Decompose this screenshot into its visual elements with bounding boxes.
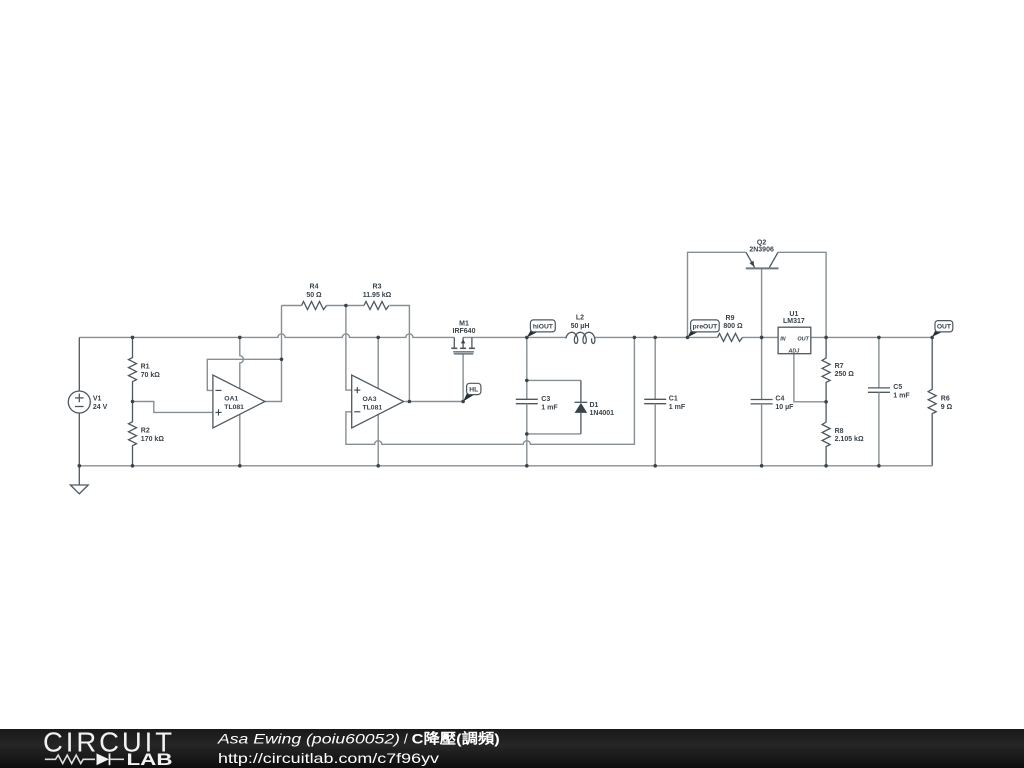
wire bottom rail (ground return) [79,465,932,467]
net flag hiOUT [527,329,539,338]
svg-text:OUT: OUT [937,324,952,331]
resistor R6 9 Ω [928,337,936,465]
wire OA1 V- supply pin [239,415,241,466]
svg-text:C3: C3 [541,396,550,403]
wire R1-R2 divider tap to OA1 noninverting input [133,402,213,413]
voltage source V1 24 V [78,337,80,391]
svg-text:LAB: LAB [127,751,173,768]
svg-text:9 Ω: 9 Ω [941,404,953,411]
wire OA3 output to M1 gate / HL node [405,401,464,403]
svg-text:250 Ω: 250 Ω [835,371,855,378]
svg-text:OA3: OA3 [363,396,377,403]
net flag OUT [932,329,943,337]
wire top rail from L2 to preOUT node [595,336,688,338]
CircuitLab logo schematic doodle: diode [97,753,110,765]
resistor R8 2.105 kΩ [822,402,830,466]
svg-text:1N4001: 1N4001 [590,410,615,417]
svg-text:OUT: OUT [797,336,809,342]
ground [78,466,80,485]
svg-text:1 mF: 1 mF [541,404,558,411]
transistor Q2 2N3906 (PNP) [746,267,779,269]
svg-text:1 mF: 1 mF [669,404,686,411]
svg-text:2.105 kΩ: 2.105 kΩ [835,436,864,443]
wire top rail from M1 source to L2 [463,336,566,338]
wire U1 ADJ pin to R7-R8 junction [794,354,826,402]
wire Q2 collector loop right (down to U1 OUT node) [778,252,826,337]
svg-text:10 µF: 10 µF [775,404,794,411]
svg-text:170 kΩ: 170 kΩ [141,436,165,443]
wire OA3 noninverting input from R4-R3 junction [346,306,352,391]
svg-text:R2: R2 [141,428,150,435]
wire OA1 feedback (output to inverting input) [207,359,281,390]
wire R3 right lead and riser down to OA3 output [390,306,410,402]
svg-text:24 V: 24 V [93,404,108,411]
wire Q2 emitter loop left (preOUT node up and over) [688,252,747,337]
regulator U1 LM317 [778,327,811,354]
svg-text:L2: L2 [576,314,584,321]
resistor R9 800 Ω [718,333,743,341]
svg-text:preOUT: preOUT [693,324,718,331]
resistor R4 50 Ω [302,302,327,310]
svg-text:50 Ω: 50 Ω [306,292,322,299]
svg-text:R6: R6 [941,396,950,403]
svg-text:R1: R1 [141,363,150,370]
svg-text:R8: R8 [835,428,844,435]
resistor R1 70 kΩ [129,337,137,401]
svg-text:11.95 kΩ: 11.95 kΩ [363,292,392,299]
capacitor C3 1 mF [526,337,528,399]
resistor R2 170 kΩ [129,402,137,466]
svg-text:C4: C4 [775,396,784,403]
wire preOUT node to R9 left lead [688,336,718,338]
svg-text:M1: M1 [459,320,469,327]
net flag HL [463,391,475,401]
svg-text:LM317: LM317 [783,318,805,325]
svg-text:R3: R3 [373,283,382,290]
wire OA3 V+ supply pin [377,337,379,388]
wire OA3 inverting input feedback to post-L2 node (hops over OA3 V- and C3) [346,337,635,444]
resistor R3 11.95 kΩ [364,302,389,310]
wire top rail left (V+ 24V rail from V1 to M1 drain) [79,334,454,338]
wire OA1 V+ supply pin (hops over feedback wire) [240,337,244,388]
diode D1 1N4001 [580,380,582,402]
svg-text:Asa Ewing (poiu60052) / C降壓(調頻: Asa Ewing (poiu60052) / C降壓(調頻) [217,731,500,747]
svg-text:C5: C5 [893,384,902,391]
svg-text:R9: R9 [726,315,735,322]
capacitor C5 1 mF [878,337,880,388]
svg-text:D1: D1 [590,402,599,409]
svg-text:http://circuitlab.com/c7f96yv: http://circuitlab.com/c7f96yv [218,750,439,766]
wire C3-D1 top link [527,379,581,381]
wire R9 right lead to U1 IN pin [743,336,779,338]
net flag preOUT [688,329,700,338]
wire R4 left lead [282,305,302,307]
transistor M1 IRF640 (NMOS) [453,337,455,348]
wire C3-D1 bottom link [527,433,581,435]
svg-text:R7: R7 [835,363,844,370]
junction dots [131,336,135,340]
capacitor C1 1 mF [654,337,656,399]
svg-text:IRF640: IRF640 [453,328,476,335]
op-amp OA1 TL081 [213,375,265,428]
svg-text:IN: IN [780,336,785,342]
svg-text:800 Ω: 800 Ω [723,323,743,330]
svg-text:V1: V1 [93,395,102,402]
capacitor C4 10 µF [761,337,763,399]
svg-text:OA1: OA1 [224,396,238,403]
wire OA3 V- supply pin [377,414,379,465]
wire Q2 base to IN rail node [761,269,763,338]
op-amp OA3 TL081 [352,375,404,428]
svg-text:2N3906: 2N3906 [749,246,774,253]
svg-text:TL081: TL081 [363,405,383,412]
svg-text:HL: HL [469,386,478,393]
resistor R7 250 Ω [822,337,830,401]
svg-text:70 kΩ: 70 kΩ [141,372,161,379]
svg-text:C1: C1 [669,396,678,403]
svg-text:hiOUT: hiOUT [533,324,554,331]
wire OA1 output riser to R4/R3 wire [265,306,282,402]
wire U1 OUT pin to OUT flag node [811,336,932,338]
wire M1 gate lead down to HL node [462,354,464,402]
svg-text:1 mF: 1 mF [893,392,910,399]
CircuitLab logo schematic doodle: resistor [45,755,95,763]
svg-text:ADJ: ADJ [788,349,801,355]
svg-text:50 µH: 50 µH [571,323,590,330]
inductor L2 50 µH [566,332,595,343]
svg-text:R4: R4 [310,283,319,290]
svg-text:TL081: TL081 [224,404,244,411]
wire R4-R3 junction segment [327,305,365,307]
